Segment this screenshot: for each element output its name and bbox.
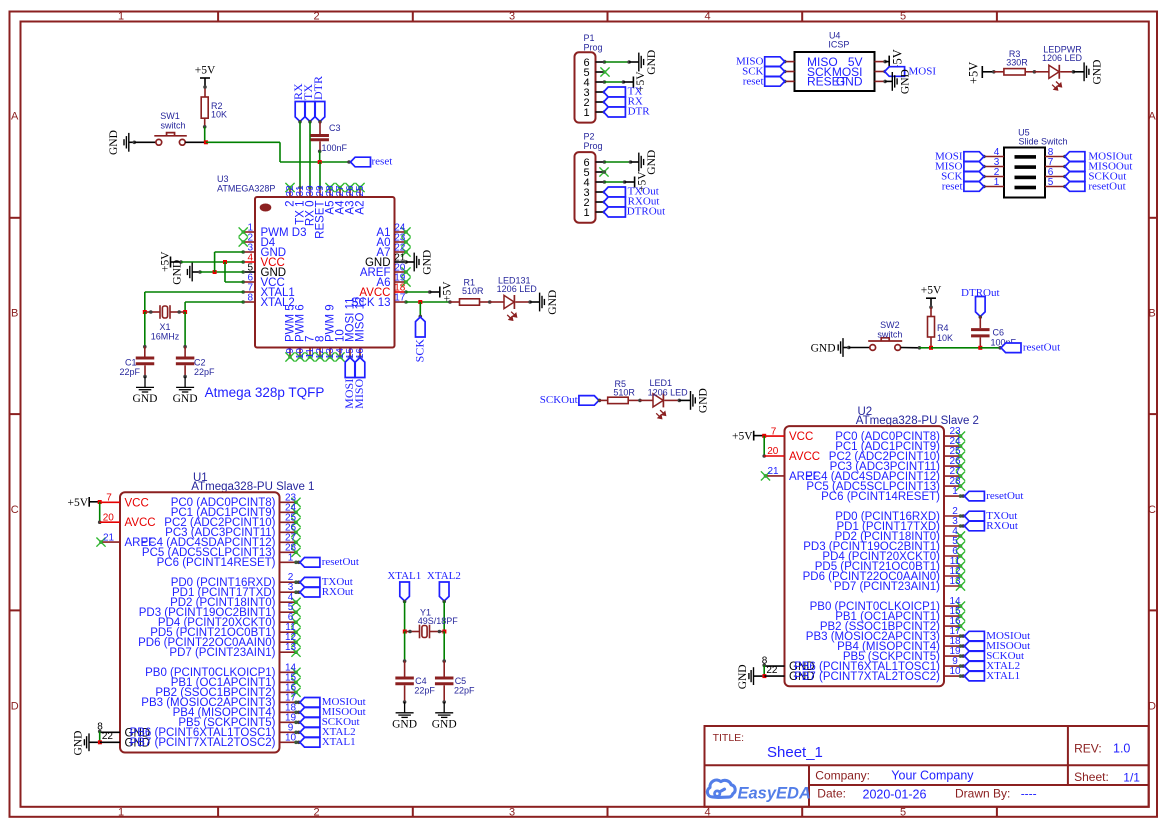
ground GND (below C2): [173, 375, 198, 405]
netflag RXOut (U1 pin 3): [297, 586, 354, 598]
U1 pin 6 PD4 (right): [158, 612, 301, 629]
svg-text:MISO 12: MISO 12: [355, 297, 367, 342]
svg-text:330R: 330R: [1006, 58, 1028, 68]
LED LEDPWR 1206 LED: [1033, 65, 1076, 90]
svg-text:4: 4: [704, 11, 710, 23]
netflag MISO (below U3 pin16): [352, 358, 366, 409]
U2 pin 5 PD3 (right): [803, 536, 965, 553]
U1 pin 2 PD0 (right): [171, 572, 298, 589]
U1 pin 23 PC0 (right): [171, 492, 301, 509]
wire P1 pin6 to GND: [604, 60, 638, 64]
svg-text:PC6 (PCINT14RESET): PC6 (PCINT14RESET): [821, 491, 940, 503]
power +5V (P1): [623, 71, 647, 92]
wire +5V to R2: [203, 85, 207, 97]
ground GND (P1): [639, 50, 658, 75]
svg-text:+5V: +5V: [967, 62, 981, 84]
svg-text:DTR: DTR: [628, 106, 651, 118]
wire U3 pin8 XTAL2 to X1: [185, 302, 243, 312]
svg-text:20: 20: [767, 446, 779, 457]
svg-text:B: B: [11, 308, 18, 320]
ground GND (below C5): [432, 700, 457, 730]
P1 pin 1: [583, 107, 606, 119]
svg-text:GND: GND: [737, 664, 749, 689]
U2 pin 28 PC5 (right): [806, 476, 965, 493]
capacitor C1 22pF: [136, 358, 155, 377]
U3 pin 21 GND (right): [365, 253, 408, 270]
wire U1 VCC to AVCC: [98, 502, 102, 524]
svg-text:R4: R4: [937, 323, 949, 333]
svg-text:A2: A2: [355, 201, 367, 215]
svg-text:SCK: SCK: [412, 339, 426, 363]
junction (red) reset/C3/RESET pin: [318, 160, 322, 164]
svg-text:C1: C1: [125, 358, 137, 368]
svg-text:5: 5: [1048, 177, 1054, 188]
svg-text:U3: U3: [217, 174, 229, 184]
svg-text:2: 2: [313, 11, 319, 23]
netflag MOSI (U5 left): [935, 150, 984, 162]
junction (red) X1 right: [183, 310, 187, 314]
label C2 22pF: [194, 358, 215, 378]
svg-text:3: 3: [509, 11, 515, 23]
wire DTR to C3: [318, 120, 322, 134]
U5 pin 6 (right): [1045, 167, 1067, 178]
netflag MOSI (U4 right): [885, 66, 937, 78]
U3 pin 3 GND (left): [241, 243, 286, 260]
netflag TX (points down): [301, 84, 315, 122]
svg-text:VCC: VCC: [789, 431, 813, 443]
svg-text:XTAL1: XTAL1: [387, 570, 421, 582]
svg-text:REV:: REV:: [1074, 742, 1102, 756]
U3 pin 4 VCC (left): [241, 253, 284, 270]
netflag MOSI (below U3 pin15): [342, 358, 356, 409]
svg-text:49S/18PF: 49S/18PF: [418, 616, 459, 626]
label R5 510R: [613, 379, 635, 398]
svg-text:MOSI: MOSI: [909, 66, 937, 78]
netflag XTAL2 (points down): [427, 570, 461, 601]
label U2 ATmega328-PU Slave 2: [856, 406, 979, 427]
frame row letters: [11, 111, 1157, 713]
netflag SCKOut (U2 pin 19): [961, 650, 1024, 662]
svg-text:GND: GND: [1091, 60, 1103, 85]
svg-text:Slide Switch: Slide Switch: [1018, 137, 1067, 147]
EasyEDA logo: [707, 780, 811, 802]
wire XTAL1 to Y1: [403, 600, 407, 632]
wire GND branch to U3 pin3: [215, 252, 244, 272]
svg-text:Sheet_1: Sheet_1: [767, 744, 823, 761]
U1 pin 7 VCC (left): [100, 493, 149, 510]
U2 pin 23 PC0 (right): [835, 426, 965, 443]
svg-text:1/1: 1/1: [1123, 771, 1140, 785]
U5 pin 7 (right): [1045, 157, 1067, 168]
svg-text:1.0: 1.0: [1113, 742, 1130, 756]
netflag XTAL2 (U1 pin 9): [297, 726, 356, 738]
netflag MISOOut (U2 pin 18): [961, 640, 1030, 652]
switch U5 body (Slide Switch): [1004, 148, 1045, 198]
capacitor C4 22pF: [395, 678, 414, 702]
svg-text:reset: reset: [942, 180, 963, 192]
svg-text:SCKOut: SCKOut: [540, 394, 578, 406]
svg-text:GND: GND: [73, 731, 85, 756]
switch SW1: [154, 133, 187, 146]
svg-text:22pF: 22pF: [194, 367, 215, 377]
P2 pin 6: [583, 157, 606, 169]
svg-text:22pF: 22pF: [414, 685, 435, 695]
svg-text:22: 22: [766, 665, 778, 676]
U3 pin 15 MOSI 11 (bottom): [345, 297, 357, 359]
netflag MISO (U5 left): [935, 160, 984, 172]
svg-text:+5V: +5V: [67, 497, 88, 509]
connector P1 body: [575, 52, 596, 122]
svg-text:GND: GND: [646, 50, 658, 75]
wire SCK branch down: [419, 302, 423, 318]
svg-text:21: 21: [767, 466, 779, 477]
no-connect X P2 pin5: [599, 167, 608, 176]
svg-text:resetOut: resetOut: [322, 556, 359, 568]
P1 pin 5: [583, 67, 606, 79]
label LED131 1206 LED: [497, 276, 538, 295]
U3 pin 25 A2 (top): [355, 183, 367, 215]
netflag resetOut (U1 pin 1): [297, 556, 359, 568]
svg-text:PD7 (PCINT23AIN1): PD7 (PCINT23AIN1): [834, 581, 940, 593]
svg-text:D: D: [11, 701, 19, 713]
label P2 Prog: [584, 132, 603, 151]
label U4 ICSP: [828, 31, 849, 50]
svg-text:GND: GND: [173, 393, 198, 405]
wire XTAL2 to Y1: [442, 600, 446, 632]
U1 pin 28 PC5 (right): [142, 542, 301, 559]
junction (red) Y1 right: [442, 630, 446, 634]
svg-text:GND: GND: [133, 393, 158, 405]
U1 pin 8 GND (left): [97, 722, 150, 740]
U1 pin 14 PB0 (right): [145, 662, 300, 679]
U3 pin 20 AREF (right): [360, 263, 411, 280]
wire +5V to R4: [929, 305, 933, 316]
power +5V (U4 5V pin): [885, 49, 904, 71]
svg-text:Prog: Prog: [584, 141, 603, 151]
U1 pin 25 PC2 (right): [164, 512, 300, 529]
U5 pin 1 (left): [982, 177, 1004, 188]
resistor R4 10K: [928, 317, 935, 348]
power +5V (left of U3): [159, 251, 181, 272]
svg-text:GND: GND: [836, 75, 863, 89]
svg-text:GND: GND: [421, 250, 433, 275]
U2 pin 15 PB1 (right): [835, 606, 965, 623]
power +5V (left of R3): [967, 62, 996, 84]
wire R2 to reset net: [203, 125, 207, 142]
svg-text:+5V: +5V: [732, 431, 753, 443]
svg-text:reset: reset: [372, 156, 393, 168]
capacitor C6 100nF: [971, 330, 990, 348]
U2 pin 10 PB7 (right): [794, 666, 962, 683]
svg-text:1206 LED: 1206 LED: [648, 388, 689, 398]
U2 pin 24 PC1 (right): [835, 436, 965, 453]
U2 pin 26 PC3 (right): [830, 456, 965, 473]
svg-text:PD7 (PCINT23AIN1): PD7 (PCINT23AIN1): [169, 647, 275, 659]
netflag reset: [351, 156, 393, 168]
svg-text:A: A: [11, 111, 19, 123]
ground GND (below C1): [133, 375, 158, 405]
junction (red) X1 left: [143, 310, 147, 314]
U3 pin 1 PWM D3 (left): [239, 223, 307, 240]
svg-text:2020-01-26: 2020-01-26: [863, 787, 927, 801]
netflag MISOOut (U1 pin 18): [297, 706, 366, 718]
U5 pin 4 (left): [982, 147, 1004, 158]
svg-text:reset: reset: [743, 75, 764, 87]
svg-text:GND: GND: [698, 388, 710, 413]
wire SW1 to junction: [185, 141, 206, 143]
ground GND (left of SW1): [108, 130, 134, 155]
P2 pin 5: [583, 167, 606, 179]
U3 pin 5 GND (left): [241, 263, 286, 280]
wire VCC branch to U3 pin6: [225, 262, 243, 282]
U1 pin 26 PC3 (right): [165, 522, 300, 539]
wire X1 to C2: [183, 312, 187, 357]
U2 pin 11 PD5 (right): [815, 556, 965, 573]
U2 pin 4 PD2 (right): [835, 526, 966, 543]
P2 pin 3: [583, 187, 606, 199]
svg-text:1206 LED: 1206 LED: [1042, 53, 1083, 63]
U1 pin 15 PB1 (right): [171, 672, 301, 689]
netflag SCKOut (points right): [540, 394, 602, 406]
svg-text:ATMEGA328P: ATMEGA328P: [217, 184, 275, 194]
U1 pin 18 PB4 (right): [173, 702, 298, 719]
svg-text:Atmega 328p TQFP: Atmega 328p TQFP: [205, 385, 325, 400]
label C4 22pF: [414, 676, 435, 695]
wire TX to U3 pin30: [308, 120, 312, 188]
netflag SCK (U4 left): [742, 66, 785, 78]
ground GND (U4): [885, 69, 911, 94]
svg-text:5: 5: [900, 11, 906, 23]
U1 pin 11 PD5 (right): [150, 622, 300, 639]
wire Y1 to C5: [442, 632, 446, 677]
svg-text:GND: GND: [108, 130, 120, 155]
U1 pin 27 PC4 (right): [141, 532, 301, 549]
netflag TXOut (P2 pin3): [604, 186, 659, 198]
svg-text:1: 1: [118, 11, 124, 23]
netflag resetOut (U5 right): [1065, 180, 1126, 192]
svg-text:4: 4: [704, 806, 710, 818]
svg-text:3: 3: [509, 806, 515, 818]
ground GND (left of U3): [171, 260, 200, 285]
svg-text:16MHz: 16MHz: [151, 332, 180, 342]
power +5V (U2): [732, 431, 764, 443]
svg-text:VCC: VCC: [125, 497, 149, 509]
U2 pin 12 PD6 (right): [803, 566, 966, 583]
U3 pin 32 2 (top): [285, 183, 297, 207]
netflag SCKOut (U5 right): [1065, 170, 1126, 182]
netflag resetOut (SW2): [1001, 342, 1060, 354]
U3 pin 19 A6 (right): [376, 273, 410, 290]
crystal X1 16MHz: [145, 305, 185, 319]
wire U3 pin18 AVCC to +5V: [406, 290, 432, 294]
svg-text:GND: GND: [171, 260, 183, 285]
wire GND to U3 pin5: [198, 270, 243, 274]
svg-text:1: 1: [118, 806, 124, 818]
wire U2 VCC to AVCC: [762, 436, 766, 458]
svg-text:10K: 10K: [211, 110, 227, 120]
wire DTROut to C6: [979, 315, 983, 328]
svg-text:20: 20: [103, 512, 115, 523]
U1 pin 20 AVCC (left): [100, 512, 156, 529]
wire U2 GND pins: [763, 665, 765, 676]
P2 pin 1: [583, 207, 606, 219]
U2 pin 17 PB3 (right): [806, 626, 963, 643]
label R2 10K: [211, 101, 227, 120]
U3 pin 27 A4 (top): [335, 183, 347, 215]
U2 pin 16 PB2 (right): [820, 616, 965, 633]
svg-text:GND: GND: [900, 69, 912, 94]
U3 pin 9 PWM 5 (bottom): [285, 304, 297, 361]
capacitor C5 22pF: [435, 678, 454, 702]
svg-text:C: C: [1148, 504, 1156, 516]
svg-text:switch: switch: [160, 120, 185, 130]
svg-text:----: ----: [1021, 787, 1037, 801]
resistor R2: [201, 97, 208, 127]
netflag RXOut (P2 pin2): [604, 196, 660, 208]
label R4 10K: [937, 323, 953, 343]
netflag DTROut (points down): [961, 287, 1000, 317]
svg-text:C2: C2: [194, 358, 206, 368]
ground GND (right of LED1): [679, 388, 709, 413]
U2 pin 22 GND (left): [764, 665, 814, 683]
svg-text:+5V: +5V: [921, 285, 942, 297]
junction (red) U2 VCC: [762, 434, 766, 438]
svg-text:Date:: Date:: [817, 787, 846, 801]
junction (red) U2 GND: [762, 674, 766, 678]
svg-text:+5V: +5V: [195, 65, 216, 77]
netflag MOSIOut (U2 pin 17): [961, 630, 1030, 642]
U5 pin 3 (left): [982, 157, 1004, 168]
U1 pin 13 PD7 (right): [169, 642, 300, 659]
svg-text:GND: GND: [392, 718, 417, 730]
netflag DTR (points down): [311, 76, 325, 122]
svg-text:510R: 510R: [613, 388, 635, 398]
junction (red) VCC branch: [223, 260, 227, 264]
frame column numbers: [118, 11, 906, 819]
svg-text:DTR: DTR: [311, 76, 325, 100]
ground GND (P2): [639, 150, 658, 175]
wire RX to U3 pin31: [298, 120, 302, 188]
svg-text:resetOut: resetOut: [986, 490, 1023, 502]
svg-text:Sheet:: Sheet:: [1074, 770, 1109, 784]
LED LED1 1206 LED: [638, 393, 681, 418]
svg-text:resetOut: resetOut: [1023, 342, 1060, 354]
U3 pin 6 VCC (left): [241, 273, 284, 290]
svg-text:Your Company: Your Company: [891, 769, 974, 783]
wire Y1 to C4: [403, 632, 407, 677]
netflag MISOOut (U5 right): [1065, 160, 1133, 172]
netflag TX (P1 pin3): [604, 86, 643, 98]
U3 pin 28 A5 (top): [325, 183, 337, 215]
P1 pin 6: [583, 57, 606, 69]
svg-text:1: 1: [952, 486, 958, 497]
svg-text:A: A: [1148, 111, 1156, 123]
U1 pin 21 AREF (left): [96, 532, 155, 549]
svg-text:17: 17: [394, 293, 406, 304]
no-connect X P1 pin5: [600, 67, 609, 76]
netflag RX (points down): [291, 83, 305, 122]
U1 pin 22 GND (left): [100, 731, 150, 749]
svg-text:7: 7: [771, 426, 777, 437]
U1 pin 1 PC6 (right): [157, 552, 298, 569]
ground GND (below C4): [392, 700, 417, 730]
capacitor C3: [310, 136, 329, 152]
svg-text:GND: GND: [646, 150, 658, 175]
U1 pin 16 PB2 (right): [155, 682, 300, 699]
svg-text:1: 1: [583, 207, 589, 219]
label Y1 49S/18PF: [418, 608, 459, 627]
U1 pin 17 PB3 (right): [141, 692, 298, 709]
label Atmega 328p TQFP: [205, 385, 325, 400]
svg-text:XTAL2: XTAL2: [427, 570, 461, 582]
netflag XTAL1 (U2 pin 10): [961, 670, 1020, 682]
svg-text:10: 10: [285, 732, 297, 743]
svg-text:7: 7: [106, 493, 112, 504]
svg-text:Company:: Company:: [815, 768, 870, 782]
resistor R5 510R: [600, 397, 641, 403]
ground GND (U3 pin21): [404, 250, 433, 275]
svg-text:C3: C3: [329, 123, 341, 133]
svg-text:8: 8: [247, 293, 253, 304]
svg-text:GND: GND: [811, 343, 836, 355]
svg-text:5: 5: [900, 806, 906, 818]
svg-text:13: 13: [949, 576, 961, 587]
label R1 510R: [462, 278, 484, 297]
switch SW2: [868, 338, 902, 351]
P2 pin 2: [583, 197, 606, 209]
op-amp U2 chip body (ATmega328-PU Slave 2): [785, 426, 945, 686]
U1 pin 5 PD3 (right): [139, 602, 301, 619]
svg-text:C: C: [11, 504, 19, 516]
svg-text:RXOut: RXOut: [322, 586, 354, 598]
U2 pin 27 PC4 (right): [805, 466, 965, 483]
label C6 100nF: [991, 328, 1017, 348]
power +5V (P2): [625, 171, 649, 192]
U2 pin 6 PD4 (right): [822, 546, 965, 563]
svg-text:22pF: 22pF: [119, 367, 140, 377]
wire P2 pin4 to +5V: [604, 180, 626, 184]
U5 pin 5 (right): [1045, 177, 1067, 188]
wire reset net to flag: [206, 142, 351, 164]
label C5 22pF: [454, 676, 475, 695]
crystal Y1 49S/18PF: [405, 625, 445, 639]
netflag XTAL1 (U1 pin 10): [297, 736, 356, 748]
U2 pin 2 PD0 (right): [835, 506, 962, 523]
U4 pin row SCK/MOSI: [783, 65, 887, 79]
U3 pin 31 TX 1 (top): [295, 185, 307, 225]
svg-text:C6: C6: [993, 328, 1005, 338]
U2 pin 25 PC2 (right): [829, 446, 965, 463]
junction (red) Y1 left: [403, 630, 407, 634]
U3 pin 18 AVCC (right): [359, 283, 407, 300]
svg-text:resetOut: resetOut: [1088, 180, 1125, 192]
U2 pin 21 AREF (left): [761, 466, 820, 483]
label SW1 switch: [160, 111, 185, 131]
wire U3 pin17 SCK net: [406, 300, 452, 304]
junction (red) R4/resetOut: [929, 346, 933, 350]
U2 pin 9 PB6 (right): [794, 656, 962, 673]
svg-text:1206 LED: 1206 LED: [497, 284, 538, 294]
netflag SCKOut (U1 pin 19): [297, 716, 360, 728]
netflag resetOut (U2 pin 1): [961, 490, 1023, 502]
junction (red) SCK branch: [418, 300, 422, 304]
U3 pin 8 XTAL2 (left): [241, 293, 294, 310]
wire reset to U3 pin29: [319, 162, 321, 188]
netflag MOSIOut (U5 right): [1065, 150, 1133, 162]
netflag MISO (U4 left): [736, 56, 785, 68]
label U5 Slide Switch: [1018, 128, 1067, 147]
svg-text:GND: GND: [432, 718, 457, 730]
